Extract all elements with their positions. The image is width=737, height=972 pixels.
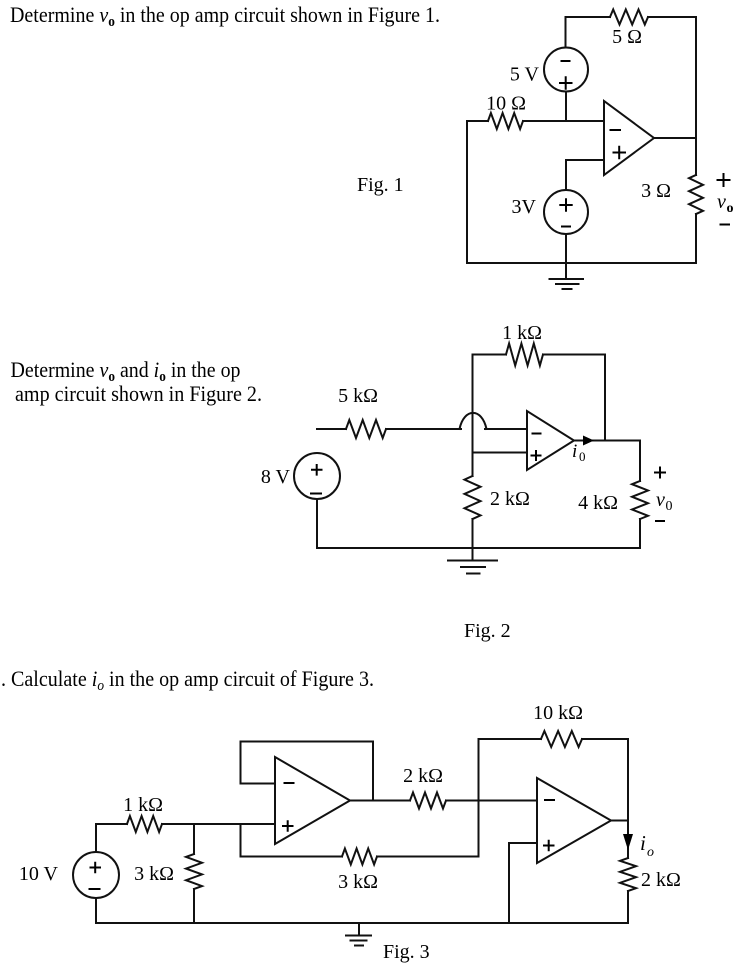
plus sign inside 8V source [311, 464, 323, 476]
svg-text:3 Ω: 3 Ω [641, 180, 671, 202]
svg-text:5 Ω: 5 Ω [612, 26, 642, 48]
svg-text:Fig. 1: Fig. 1 [357, 174, 404, 196]
plus sign inside 5V source [559, 76, 573, 89]
ground fig2 bars [448, 560, 497, 562]
wire 2 kohm to bottom fig3 [627, 891, 629, 923]
wire right vertical upper fig1 [695, 17, 697, 175]
ground fig1 stem [565, 263, 567, 279]
svg-text:10 kΩ: 10 kΩ [533, 702, 583, 724]
op-amp U2 fig2 [527, 411, 574, 470]
voltage source 3V fig1 [544, 190, 588, 234]
minus sign op-amp B fig3 [544, 799, 555, 801]
wire minus input op-amp A fig3 [241, 783, 276, 785]
arrowhead io fig3 [623, 834, 633, 850]
wire 5V stem top [565, 17, 567, 48]
svg-text:10 V: 10 V [19, 863, 59, 885]
wire 10 ohm to op-amp [523, 120, 604, 122]
wire op-amp output fig2 [574, 440, 640, 442]
arrowhead io fig2 [583, 436, 594, 446]
svg-text:amp circuit shown in Figure 2.: amp circuit shown in Figure 2. [15, 381, 262, 406]
wire 10V top stem fig3 [95, 824, 97, 852]
resistor 1 kohm fig3 [127, 816, 162, 832]
wire plus input vertical op-amp B fig3 [508, 843, 510, 923]
wire 5V stem bottom [565, 92, 567, 122]
wire junction vertical fig3 [478, 739, 480, 857]
plus sign inside 10V source [90, 862, 102, 874]
svg-text:Fig. 2: Fig. 2 [464, 620, 511, 642]
svg-text:10 Ω: 10 Ω [486, 93, 526, 115]
wire 3 kohm vertical top stem fig3 [193, 824, 195, 854]
svg-text:2 kΩ: 2 kΩ [403, 765, 443, 787]
plus sign op-amp A fig3 [282, 820, 294, 832]
wire op-amp A output fig3 [350, 800, 410, 802]
wire left to 10 ohm [467, 120, 488, 122]
resistor 10 ohm fig1 [488, 113, 523, 129]
wire 2 kohm to bottom fig2 [472, 519, 474, 548]
wire feedback left vertical fig2 [472, 355, 474, 477]
wire bottom fig3 [96, 922, 628, 924]
wire right vertical upper fig3 [627, 739, 629, 821]
svg-text:5 V: 5 V [510, 64, 540, 86]
ground fig3 bars [346, 935, 371, 937]
wire top left fig1 [566, 16, 611, 18]
wire plus input op-amp B fig3 [509, 842, 537, 844]
ground fig1 bars [550, 278, 584, 280]
wire 8V bottom stem fig2 [316, 499, 318, 548]
resistor 3 ohm fig1 [689, 175, 703, 214]
wire bottom fig2 [317, 547, 640, 549]
svg-text:0: 0 [579, 449, 586, 464]
wire 3 kohm vertical bottom stem fig3 [193, 889, 195, 923]
wire 4 kohm to bottom fig2 [639, 519, 641, 548]
wire 3V stem bottom [565, 234, 567, 263]
wire 2 kohm to op-amp B fig3 [446, 800, 537, 802]
svg-text:4 kΩ: 4 kΩ [578, 492, 618, 514]
minus sign op-amp A fig3 [284, 782, 295, 784]
wire feedback top left fig2 [473, 354, 507, 356]
svg-text:5 kΩ: 5 kΩ [338, 385, 378, 407]
svg-text:o: o [727, 201, 734, 216]
svg-text:3V: 3V [512, 196, 537, 218]
svg-text:3 kΩ: 3 kΩ [134, 863, 174, 885]
wire plus node vertical fig3 [240, 824, 242, 857]
plus sign vo fig2 [654, 467, 666, 479]
plus sign op-amp U2 [531, 450, 542, 461]
resistor 1 kohm fig2 [506, 344, 543, 366]
op-amp U1 fig1 [604, 101, 654, 175]
op-amp B fig3 [537, 778, 611, 863]
plus sign inside 3V source [559, 198, 572, 211]
minus sign vo fig2 [655, 520, 665, 522]
svg-text:2 kΩ: 2 kΩ [490, 488, 530, 510]
svg-text:8 V: 8 V [261, 466, 291, 488]
wire 3V stem top [565, 160, 567, 190]
resistor 2 kohm vertical fig3 [620, 858, 636, 891]
svg-text:i: i [572, 441, 577, 462]
wire plus input fig1 [566, 159, 604, 161]
wire 3 kohm feedback right fig3 [377, 856, 479, 858]
plus sign op-amp U1 [613, 146, 627, 159]
wire 10V bottom stem fig3 [95, 898, 97, 923]
plus sign vo fig1 [717, 173, 731, 187]
svg-text:v: v [656, 489, 665, 511]
wire top right fig1 [648, 16, 696, 18]
wire op-amp output fig1 [654, 137, 696, 139]
voltage source 5V fig1 [544, 48, 588, 92]
wire right vertical lower fig1 [695, 214, 697, 263]
minus sign inside 3V source [561, 226, 571, 228]
wire hop to minus input fig2 [485, 428, 527, 430]
wire feedback top op-amp A fig3 [241, 741, 374, 743]
minus sign inside 10V source [89, 888, 101, 890]
wire 3 kohm feedback left fig3 [241, 856, 343, 858]
wire plus input fig2 [473, 452, 528, 454]
resistor 3 kohm fig3 bottom [342, 849, 377, 865]
minus sign inside 8V source [310, 493, 322, 495]
resistor 2 kohm fig3 mid [410, 793, 446, 809]
resistor 2 kohm fig2 [465, 476, 481, 519]
resistor 10 kohm fig3 [541, 731, 582, 747]
minus sign op-amp U2 [532, 433, 542, 435]
svg-text:. Calculate io in the op amp c: . Calculate io in the op amp circuit of … [1, 666, 374, 694]
svg-text:2 kΩ: 2 kΩ [641, 869, 681, 891]
resistor 4 kohm fig2 [632, 481, 648, 519]
svg-text:i: i [640, 831, 646, 855]
wire hop over vertical fig2 [460, 413, 487, 429]
wire feedback top right fig2 [543, 354, 605, 356]
wire feedback left vertical op-amp A fig3 [240, 742, 242, 784]
svg-text:Fig. 3: Fig. 3 [383, 941, 430, 963]
svg-text:0: 0 [666, 499, 673, 514]
wire feedback right vertical fig2 [604, 355, 606, 441]
wire left vertical fig1 [466, 121, 468, 263]
resistor 5 kohm fig2 [346, 420, 386, 438]
minus sign op-amp U1 [610, 129, 622, 131]
resistor 5 ohm fig1 [610, 10, 648, 25]
wire op-amp B output fig3 [611, 820, 628, 822]
wire bottom fig1 [467, 262, 696, 264]
svg-text:1 kΩ: 1 kΩ [123, 794, 163, 816]
wire source to 5 kohm fig2 [317, 428, 346, 430]
plus sign op-amp B fig3 [543, 840, 555, 852]
svg-text:1 kΩ: 1 kΩ [502, 322, 542, 344]
voltage source 10V fig3 [73, 852, 119, 898]
ground fig3 stem [358, 923, 360, 936]
wire output down fig3 [627, 821, 629, 859]
wire 10 kohm left fig3 [479, 738, 542, 740]
ground fig2 stem [472, 548, 474, 561]
resistor 3 kohm vertical fig3 [186, 854, 202, 889]
svg-text:Determine vo in the op amp cir: Determine vo in the op amp circuit shown… [10, 2, 440, 30]
wire 1 kohm to op-amp A plus fig3 [162, 823, 275, 825]
wire 5 kohm to hop fig2 [386, 428, 461, 430]
voltage source 8V fig2 [294, 453, 340, 499]
svg-text:o: o [647, 845, 654, 860]
svg-text:3 kΩ: 3 kΩ [338, 871, 378, 893]
svg-text:v: v [717, 191, 726, 213]
minus sign vo fig1 [720, 224, 731, 226]
wire output to 4 kohm fig2 [639, 441, 641, 482]
wire 10 kohm right fig3 [582, 738, 628, 740]
op-amp A fig3 [275, 757, 350, 844]
wire feedback right vertical op-amp A fig3 [372, 742, 374, 801]
wire 10V to 1 kohm fig3 [96, 823, 127, 825]
minus sign inside 5V source [561, 60, 571, 62]
